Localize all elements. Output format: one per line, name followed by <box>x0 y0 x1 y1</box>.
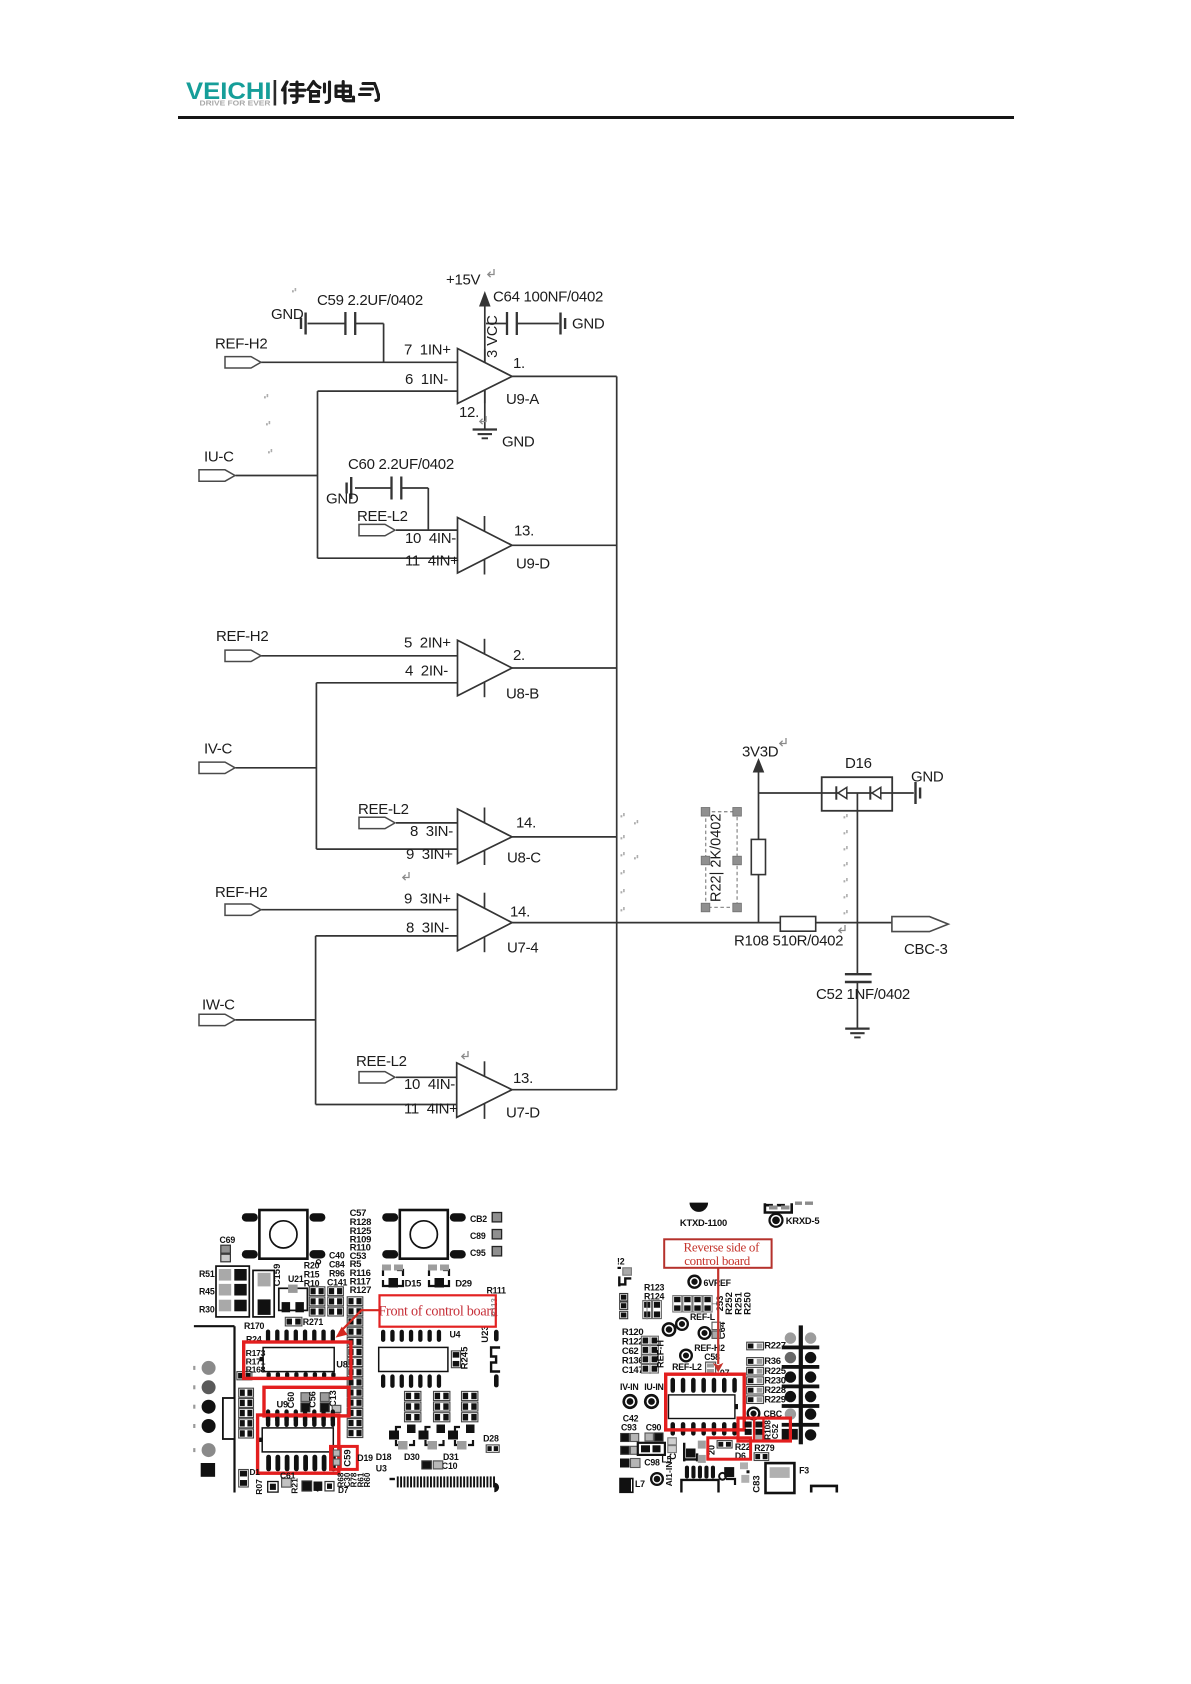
svg-text:D1: D1 <box>250 1467 261 1477</box>
svg-text:IU-IN: IU-IN <box>644 1382 664 1392</box>
svg-text:2.: 2. <box>513 647 525 664</box>
svg-text:R245: R245 <box>460 1346 471 1369</box>
svg-text:D30: D30 <box>404 1452 420 1462</box>
svg-text:KRXD-5: KRXD-5 <box>786 1215 820 1226</box>
svg-text:11 4IN+: 11 4IN+ <box>405 553 459 570</box>
svg-text:CBC-3: CBC-3 <box>904 941 948 958</box>
svg-text:IV-IN: IV-IN <box>620 1382 639 1392</box>
svg-text:C93: C93 <box>621 1423 637 1433</box>
svg-text:R111: R111 <box>487 1286 507 1296</box>
svg-text:R51: R51 <box>199 1269 215 1279</box>
svg-text:4 2IN-: 4 2IN- <box>405 663 448 680</box>
svg-text:CB2: CB2 <box>470 1214 487 1224</box>
svg-text:3V3D: 3V3D <box>742 744 779 761</box>
svg-text:C141: C141 <box>327 1278 348 1288</box>
svg-text:U21: U21 <box>288 1274 304 1284</box>
svg-text:L7: L7 <box>635 1479 645 1489</box>
svg-text:C60 2.2UF/0402: C60 2.2UF/0402 <box>348 456 454 473</box>
svg-text:13.: 13. <box>513 1070 533 1087</box>
svg-text:C61: C61 <box>280 1471 296 1481</box>
svg-text:D16: D16 <box>845 755 872 772</box>
svg-text:C52 1NF/0402: C52 1NF/0402 <box>816 986 910 1003</box>
svg-text:U9: U9 <box>277 1400 289 1410</box>
svg-text:U8-B: U8-B <box>506 686 539 703</box>
svg-text:U8: U8 <box>336 1360 348 1370</box>
svg-text:D7: D7 <box>338 1485 349 1495</box>
svg-text:KTXD-1100: KTXD-1100 <box>680 1217 727 1228</box>
svg-text:C98: C98 <box>644 1458 660 1468</box>
svg-text:C13: C13 <box>328 1390 338 1407</box>
svg-text:U8-C: U8-C <box>507 850 541 867</box>
svg-text:47: 47 <box>312 1482 322 1492</box>
svg-text:R271: R271 <box>303 1317 324 1327</box>
svg-text:GND: GND <box>911 769 944 786</box>
svg-text:R60: R60 <box>363 1472 372 1487</box>
svg-text:R127: R127 <box>350 1285 372 1296</box>
svg-text:U4: U4 <box>450 1330 461 1340</box>
svg-text:REE-L2: REE-L2 <box>357 508 408 525</box>
svg-text:D18: D18 <box>376 1452 392 1462</box>
svg-text:REF-L: REF-L <box>690 1312 716 1322</box>
svg-text:R279: R279 <box>754 1443 775 1453</box>
svg-text:U9-D: U9-D <box>516 556 550 573</box>
svg-text:IU-C: IU-C <box>204 449 234 466</box>
svg-text:10 4IN-: 10 4IN- <box>404 1076 455 1093</box>
svg-text:R30: R30 <box>199 1305 215 1315</box>
svg-text:GND: GND <box>326 491 359 508</box>
svg-text:REF-H2: REF-H2 <box>215 336 267 353</box>
svg-text:C95: C95 <box>470 1248 486 1258</box>
svg-text:DRIVE FOR EVER: DRIVE FOR EVER <box>200 98 272 107</box>
svg-text:D15: D15 <box>405 1279 423 1290</box>
svg-text:C147: C147 <box>622 1365 644 1376</box>
svg-text:IV-C: IV-C <box>204 741 232 758</box>
svg-text:GND: GND <box>271 306 304 323</box>
svg-text:C59: C59 <box>343 1449 354 1466</box>
svg-text:REE-L2: REE-L2 <box>356 1053 407 1070</box>
svg-text:control board: control board <box>684 1253 751 1268</box>
svg-text:REF-H2: REF-H2 <box>216 628 268 645</box>
svg-text:R07: R07 <box>254 1479 264 1495</box>
svg-text:14.: 14. <box>510 904 530 921</box>
svg-text:11 4IN+: 11 4IN+ <box>404 1101 458 1118</box>
svg-text:9 3IN+: 9 3IN+ <box>404 891 451 908</box>
svg-text:U3: U3 <box>376 1464 387 1474</box>
svg-text:REF-L2: REF-L2 <box>672 1362 702 1372</box>
svg-text:+15V: +15V <box>446 272 481 289</box>
svg-text:7 1IN+: 7 1IN+ <box>404 342 451 359</box>
svg-text:14.: 14. <box>516 815 536 832</box>
svg-text:C69: C69 <box>220 1235 236 1245</box>
svg-text:D19: D19 <box>357 1453 373 1463</box>
svg-text:F3: F3 <box>799 1466 809 1476</box>
svg-text:R108 510R/0402: R108 510R/0402 <box>734 933 843 950</box>
svg-text:C90: C90 <box>646 1423 662 1433</box>
svg-text:REF-H: REF-H <box>656 1340 666 1368</box>
svg-text:R22| 2K/0402: R22| 2K/0402 <box>709 814 725 902</box>
svg-text:U7-D: U7-D <box>506 1105 540 1122</box>
svg-text:U7-4: U7-4 <box>507 940 538 957</box>
svg-text:C64 100NF/0402: C64 100NF/0402 <box>493 289 603 306</box>
svg-text:!2: !2 <box>617 1257 625 1267</box>
svg-text:AI1-IN: AI1-IN <box>664 1462 674 1487</box>
svg-text:C56: C56 <box>308 1391 318 1408</box>
svg-text:C83: C83 <box>752 1475 763 1492</box>
svg-text:1.: 1. <box>513 355 525 372</box>
svg-text:8 3IN-: 8 3IN- <box>406 920 449 937</box>
svg-text:10 4IN-: 10 4IN- <box>405 530 456 547</box>
svg-text:3 VCC: 3 VCC <box>485 315 501 358</box>
svg-text:D28: D28 <box>483 1434 499 1444</box>
svg-text:8 3IN-: 8 3IN- <box>410 823 453 840</box>
svg-text:12.: 12. <box>459 404 479 421</box>
svg-text:6 1IN-: 6 1IN- <box>405 371 448 388</box>
svg-text:R45: R45 <box>199 1287 215 1297</box>
svg-text:R170: R170 <box>244 1321 265 1331</box>
svg-text:U23: U23 <box>480 1325 491 1342</box>
svg-text:C159: C159 <box>272 1264 283 1287</box>
svg-text:D29: D29 <box>455 1279 472 1290</box>
svg-text:9 3IN+: 9 3IN+ <box>406 846 453 863</box>
svg-text:REF-H2: REF-H2 <box>215 884 267 901</box>
svg-text:R229: R229 <box>764 1394 786 1405</box>
svg-text:13.: 13. <box>514 523 534 540</box>
svg-text:REE-L2: REE-L2 <box>358 801 409 818</box>
svg-text:C10: C10 <box>442 1461 458 1471</box>
svg-text:R168: R168 <box>246 1365 266 1375</box>
svg-text:5 2IN+: 5 2IN+ <box>404 635 451 652</box>
svg-text:C52: C52 <box>770 1424 780 1440</box>
svg-text:GND: GND <box>572 316 605 333</box>
svg-text:IW-C: IW-C <box>202 997 235 1014</box>
svg-text:GND: GND <box>502 434 535 451</box>
svg-text:C59 2.2UF/0402: C59 2.2UF/0402 <box>317 292 423 309</box>
svg-text:C89: C89 <box>470 1231 486 1241</box>
svg-text:Front of control board: Front of control board <box>378 1303 497 1319</box>
svg-text:U9-A: U9-A <box>506 391 539 408</box>
svg-text:R250: R250 <box>743 1292 754 1315</box>
